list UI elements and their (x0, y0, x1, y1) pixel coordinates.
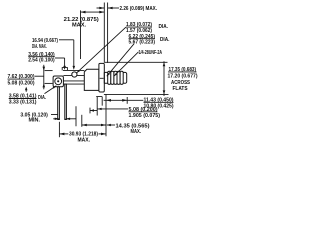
svg-text:FLATS: FLATS (173, 86, 188, 92)
svg-text:2.54 (0.100): 2.54 (0.100) (28, 57, 55, 63)
svg-text:5.08 (0.200): 5.08 (0.200) (8, 81, 35, 87)
svg-text:MAX.: MAX. (131, 129, 142, 135)
svg-text:DIA.: DIA. (38, 95, 46, 101)
svg-text:5.67 (0.223): 5.67 (0.223) (129, 40, 156, 46)
svg-text:MAX.: MAX. (72, 22, 87, 28)
svg-text:17.20 (0.677): 17.20 (0.677) (168, 73, 198, 79)
svg-text:DIA.: DIA. (160, 37, 170, 43)
svg-text:2.26 (0.089) MAX.: 2.26 (0.089) MAX. (120, 6, 158, 12)
svg-text:1.905 (0.075): 1.905 (0.075) (129, 113, 161, 119)
svg-text:DIA. MAX.: DIA. MAX. (32, 44, 47, 50)
svg-text:1/4-28UNF-2A: 1/4-28UNF-2A (139, 50, 163, 56)
svg-text:MAX.: MAX. (78, 137, 91, 143)
svg-text:MIN.: MIN. (29, 117, 41, 123)
svg-text:DIA.: DIA. (159, 24, 169, 30)
svg-text:3.33 (0.131): 3.33 (0.131) (9, 99, 37, 105)
